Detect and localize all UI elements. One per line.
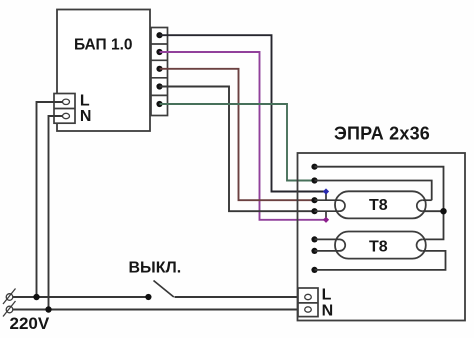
- lamp T8 no.2 tube body: [335, 232, 426, 259]
- wire: phase from switch to ЭПРА L: [175, 296, 306, 298]
- wire 5 (green) from БАП terminal 5 to ЭПРА terminal dot 2: [160, 104, 315, 181]
- purple wire end mark: [323, 217, 329, 223]
- terminal dot 2 of БАП: [156, 49, 162, 55]
- screw hole L of ЭПРА: [305, 294, 312, 299]
- terminal dot 1 of БАП: [156, 32, 162, 38]
- stub from purple mark up to lamp1 bottom pin: [325, 211, 327, 220]
- lamp T8 no.1 right bottom pin wire to loop junction: [422, 210, 443, 212]
- wire 1 (dark blue) from БАП terminal 1 to lamp1 left top pin: [160, 35, 327, 191]
- terminal dot 5 of БАП: [156, 101, 162, 107]
- ЭПРА terminal dot 7: [311, 267, 317, 273]
- wire 3 (dark red) from БАП terminal 3 to ЭПРА terminal dot 3: [160, 69, 315, 200]
- lamp T8 no.1 right filament cap: [417, 200, 423, 211]
- wire: N tap from neutral up to БАП N: [49, 116, 63, 310]
- wire: ЭПРА dot2 to lamp1 right top pin: [315, 181, 432, 201]
- L/N input block of ЭПРА: [298, 288, 318, 317]
- screw hole L of БАП: [63, 99, 70, 104]
- ЭПРА terminal dot 3: [311, 197, 317, 203]
- junction on neutral wire: [45, 306, 51, 312]
- ЭПРА terminal dot 5: [311, 236, 317, 242]
- wire: lamp2 right bottom pin return loop to ЭПРА dot7: [315, 251, 446, 270]
- terminal strip of БАП (5 cells): [151, 28, 168, 116]
- svg-text:ЭПРА 2x36: ЭПРА 2x36: [334, 124, 430, 144]
- switch ВЫКЛ contact dot: [145, 294, 151, 300]
- junction dot on right loop: [440, 208, 446, 214]
- stub from blue mark down to lamp1 top pin: [325, 192, 327, 201]
- svg-text:N: N: [322, 302, 334, 319]
- wire: ЭПРА dot1 loop to lamp2 right top pin: [315, 167, 444, 240]
- terminal dot 3 of БАП: [156, 66, 162, 72]
- lamp T8 no.1 left bottom pin wire from dot4: [315, 210, 340, 212]
- screw hole N of ЭПРА: [305, 307, 312, 312]
- lamp T8 no.2 right top pin stub: [422, 238, 425, 240]
- ЭПРА terminal dot 4: [311, 208, 317, 214]
- svg-text:N: N: [80, 108, 92, 125]
- screw hole N of БАП: [63, 113, 70, 118]
- wire: phase from source to switch contact: [13, 296, 149, 298]
- wire 2 (purple) from БАП terminal 2 to lamp1 left bottom pin: [160, 52, 327, 220]
- svg-text:L: L: [80, 92, 90, 109]
- lamp T8 no.2 left filament cap: [340, 239, 346, 251]
- L/N input block of БАП: [54, 94, 75, 124]
- svg-text:Т8: Т8: [369, 197, 388, 214]
- terminal dot 4 of БАП: [156, 83, 162, 89]
- wire: ЭПРА dot5 to lamp2 left top pin: [315, 238, 340, 240]
- ballast unit БАП 1.0 box: [57, 10, 150, 132]
- svg-text:Т8: Т8: [369, 238, 388, 255]
- ЭПРА terminal dot 2: [311, 177, 317, 183]
- svg-text:ВЫКЛ.: ВЫКЛ.: [129, 260, 182, 277]
- wire: ЭПРА dot6 to lamp2 left bottom pin: [315, 250, 340, 252]
- lamp T8 no.1 right top pin wire: [422, 199, 431, 201]
- neutral lead-in symbol (circle with slash) bottom: [3, 301, 16, 317]
- junction on phase wire: [33, 294, 39, 300]
- ЭПРА terminal dot 6: [311, 248, 317, 254]
- lamp T8 no.1 left top pin wire from dot3: [315, 199, 340, 201]
- lamp T8 no.2 right bottom pin stub: [422, 250, 425, 252]
- svg-text:БАП 1.0: БАП 1.0: [74, 37, 133, 54]
- wire 4 (black) from БАП terminal 4 to ЭПРА terminal dot 4: [160, 87, 315, 212]
- switch ВЫКЛ blade: [154, 281, 174, 298]
- svg-text:L: L: [322, 286, 332, 303]
- lamp T8 no.1 tube body: [335, 191, 426, 218]
- phase lead-in symbol (circle with slash) top: [3, 289, 16, 305]
- ЭПРА terminal dot 1: [311, 164, 317, 170]
- lamp T8 no.2 right filament cap: [417, 239, 423, 251]
- svg-text:220V: 220V: [10, 314, 50, 333]
- lamp T8 no.1 left filament cap: [340, 200, 346, 211]
- wire: neutral from source to ЭПРА N: [13, 309, 305, 311]
- electronic ballast ЭПРА 2x36 box: [298, 153, 466, 321]
- wire: L tap from phase up to БАП L: [37, 102, 63, 297]
- blue wire end mark: [323, 188, 329, 194]
